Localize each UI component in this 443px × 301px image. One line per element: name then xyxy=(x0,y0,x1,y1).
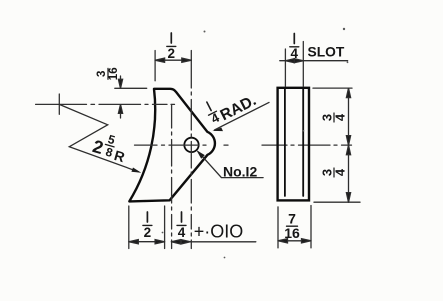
svg-text:4: 4 xyxy=(291,46,299,61)
leader No.12 xyxy=(198,152,263,178)
svg-text:4: 4 xyxy=(333,113,348,121)
text 7/16 xyxy=(284,211,300,242)
svg-text:2: 2 xyxy=(90,136,105,158)
dimension 3/4 + 3/4 (right) xyxy=(346,88,350,202)
text 1/4 slot xyxy=(290,34,299,61)
text 1/2 bottom xyxy=(143,212,152,240)
svg-text:16: 16 xyxy=(284,225,300,241)
ext line bottom-right of side view xyxy=(314,201,360,203)
svg-text:2: 2 xyxy=(144,225,152,240)
text 2 5/8 R xyxy=(90,129,130,166)
text 1/2 top xyxy=(167,33,176,61)
part outline (front view) xyxy=(129,89,215,202)
arc center mark xyxy=(58,94,60,114)
ext lines 7/16 xyxy=(278,206,311,248)
dimension 1/2 (top) xyxy=(155,58,191,62)
text 3/4 lower (rotated) xyxy=(320,168,348,177)
dimension 1/4 +.010 (bottom) xyxy=(171,240,256,244)
svg-text:2: 2 xyxy=(168,46,176,61)
ext line top-right of side view xyxy=(313,87,352,89)
scan specks xyxy=(162,28,349,259)
slot lines xyxy=(285,89,303,196)
svg-text:+·OIO: +·OIO xyxy=(194,221,244,241)
svg-text:R: R xyxy=(112,147,126,165)
svg-text:7: 7 xyxy=(288,211,296,227)
side view rectangle xyxy=(278,88,309,201)
hole No.12 xyxy=(184,138,198,152)
svg-text:3: 3 xyxy=(96,71,108,77)
dimension 7/16 xyxy=(278,239,311,243)
centerline horizontal y=145 (hole centerline) xyxy=(135,144,352,146)
svg-text:4: 4 xyxy=(333,168,348,176)
ext lines for 1/4 SLOT xyxy=(285,42,303,87)
centerline vertical x=171.6 xyxy=(171,105,173,249)
text 1/4 bottom xyxy=(177,212,186,240)
svg-text:No.I2: No.I2 xyxy=(223,164,257,180)
leader 2 5/8 R (jogged radius) xyxy=(59,104,138,171)
svg-text:RAD.: RAD. xyxy=(218,92,259,124)
text 3/16 (rotated) xyxy=(96,67,120,80)
text 3/4 upper (rotated) xyxy=(320,113,348,122)
centerline horizontal y=104 (arc center line) xyxy=(36,103,175,105)
dimension 1/2 (bottom) xyxy=(129,240,165,244)
svg-text:SLOT: SLOT xyxy=(308,45,345,60)
centerline vertical x=191 (hole centerline) xyxy=(190,51,192,249)
dimension 1/4 SLOT xyxy=(280,59,348,63)
extension line top-left (for 1/2 top) xyxy=(154,51,156,81)
leader 1/4 RAD. xyxy=(215,102,270,129)
text 1/4 RAD. (rotated) xyxy=(203,100,223,127)
extension of top edge to left (for 3/16) xyxy=(115,87,147,89)
ext lines bottom (1/2, 1/4) xyxy=(129,206,165,249)
svg-text:16: 16 xyxy=(108,67,120,80)
svg-text:4: 4 xyxy=(178,225,186,240)
dimension 3/16 arrows xyxy=(118,76,122,118)
